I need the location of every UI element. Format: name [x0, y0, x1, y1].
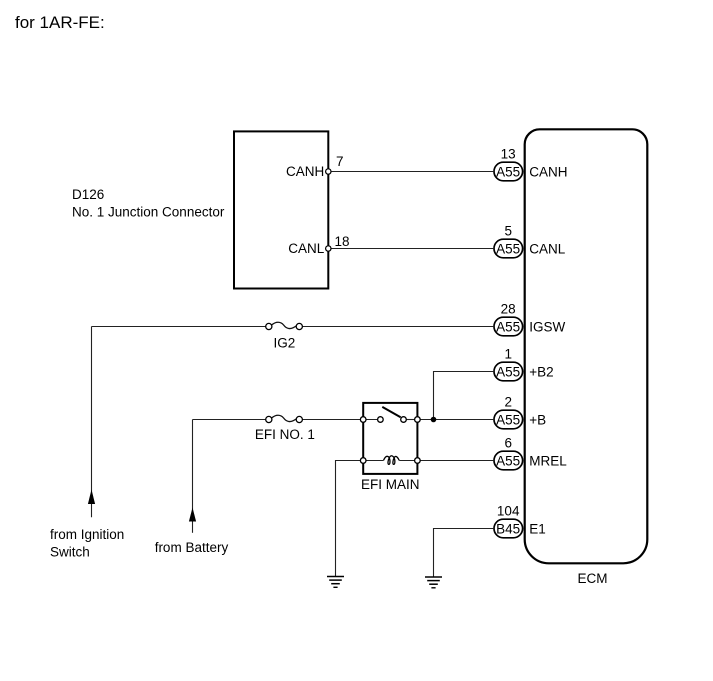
svg-text:ECM: ECM	[578, 571, 608, 586]
svg-text:IGSW: IGSW	[529, 319, 565, 334]
svg-text:CANH: CANH	[286, 164, 324, 179]
svg-text:+B2: +B2	[529, 364, 553, 379]
svg-text:A55: A55	[496, 164, 520, 179]
svg-text:18: 18	[335, 234, 350, 249]
svg-text:+B: +B	[529, 412, 546, 427]
svg-text:A55: A55	[496, 319, 520, 334]
svg-text:MREL: MREL	[529, 453, 567, 468]
svg-text:IG2: IG2	[274, 336, 296, 351]
svg-text:CANL: CANL	[288, 241, 325, 256]
svg-text:1: 1	[504, 347, 512, 362]
svg-text:7: 7	[336, 154, 344, 169]
svg-text:A55: A55	[496, 412, 520, 427]
svg-text:A55: A55	[496, 241, 520, 256]
svg-text:D126: D126	[72, 187, 104, 202]
svg-text:28: 28	[501, 302, 516, 317]
svg-text:from Ignition: from Ignition	[50, 527, 124, 542]
svg-text:No. 1 Junction Connector: No. 1 Junction Connector	[72, 205, 225, 220]
svg-text:2: 2	[504, 395, 512, 410]
svg-text:CANH: CANH	[529, 164, 567, 179]
svg-text:13: 13	[501, 147, 516, 162]
svg-text:CANL: CANL	[529, 241, 566, 256]
svg-text:EFI MAIN: EFI MAIN	[361, 477, 420, 492]
svg-text:EFI NO. 1: EFI NO. 1	[255, 427, 315, 442]
svg-text:from Battery: from Battery	[155, 540, 229, 555]
svg-text:5: 5	[504, 224, 512, 239]
svg-text:A55: A55	[496, 453, 520, 468]
svg-text:B45: B45	[496, 521, 520, 536]
svg-text:6: 6	[504, 436, 512, 451]
svg-text:104: 104	[497, 504, 520, 519]
svg-text:E1: E1	[529, 521, 546, 536]
svg-text:Switch: Switch	[50, 544, 90, 559]
svg-text:A55: A55	[496, 364, 520, 379]
svg-text:for 1AR-FE:: for 1AR-FE:	[15, 13, 105, 32]
